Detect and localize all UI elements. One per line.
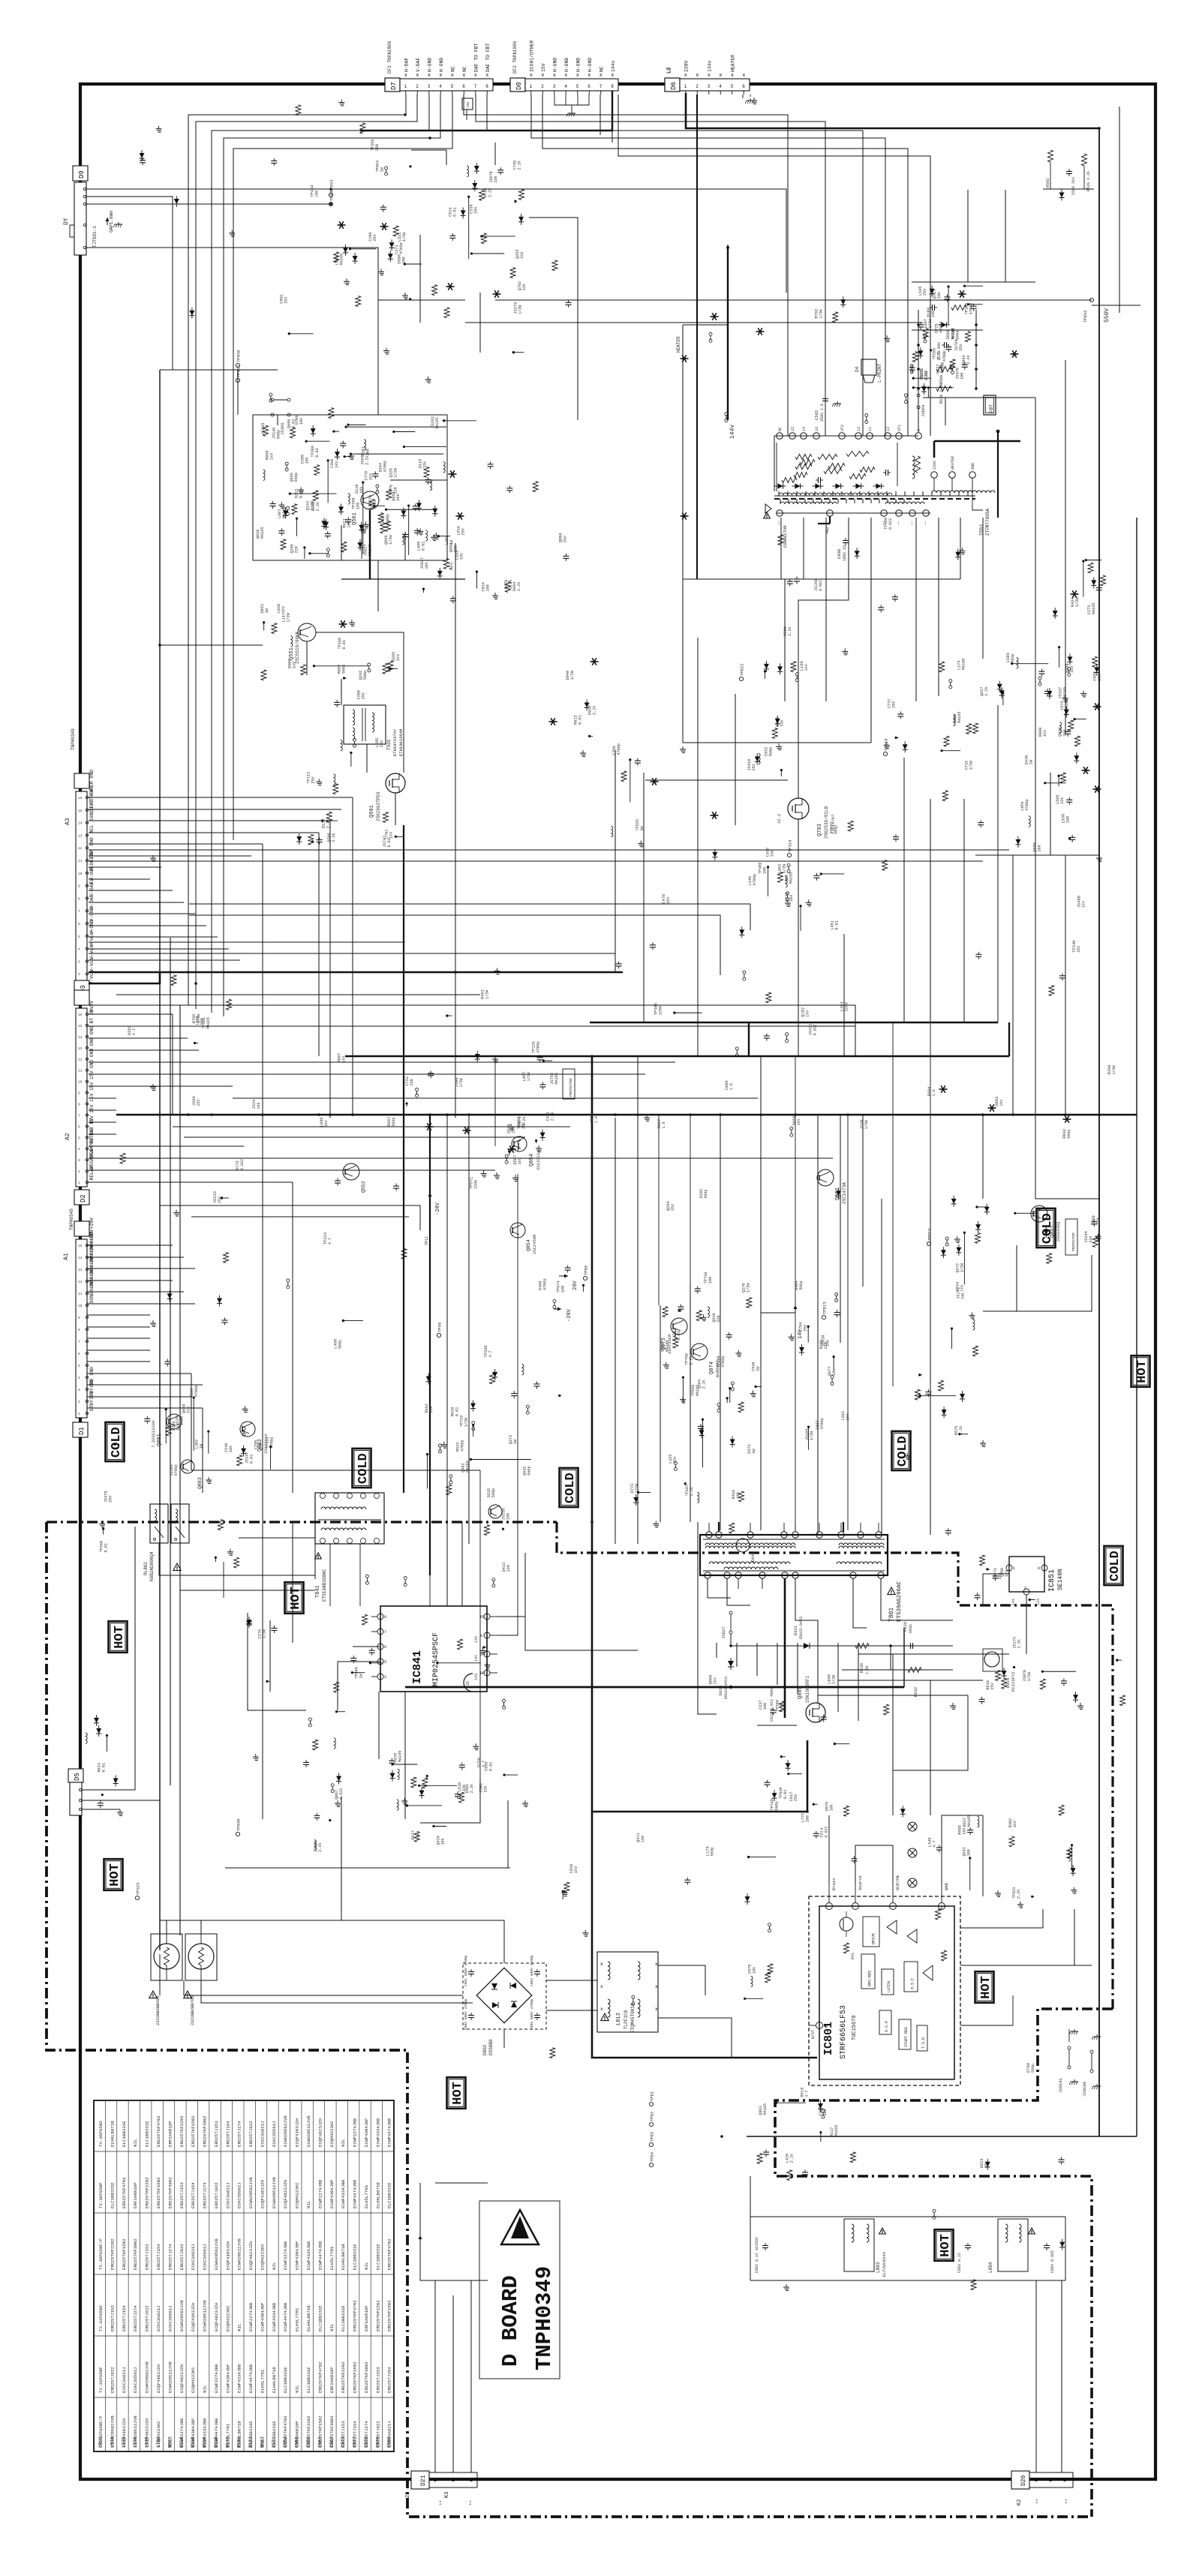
svg-text:x: x [428, 73, 431, 79]
svg-text:ERD25TKF4702: ERD25TKF4702 [317, 2361, 323, 2393]
svg-text:ECWF2274JBB: ECWF2274JBB [353, 2118, 358, 2147]
svg-text:2SC5510/06KK: 2SC5510/06KK [295, 631, 300, 664]
svg-text:DSS8B0: DSS8B0 [488, 2039, 494, 2055]
circuit cluster D849 R843 opto [484, 1488, 510, 1536]
circuit cluster D869 D866 parts [405, 1070, 434, 1106]
svg-text:ERD25TKF1502: ERD25TKF1502 [156, 2177, 161, 2208]
svg-text:ECWF2274JBB: ECWF2274JBB [179, 2418, 185, 2447]
svg-text:ELHKLB071B: ELHKLB071B [341, 2244, 346, 2270]
svg-text:D9: D9 [78, 170, 86, 179]
svg-text:L-PRINT: L-PRINT [877, 363, 882, 383]
svg-text:ECQF4103JZH: ECQF4103JZH [260, 2179, 265, 2208]
svg-text:25V: 25V [461, 527, 466, 535]
svg-text:HOT: HOT [979, 1976, 993, 1999]
svg-text:GND: GND [89, 1060, 95, 1069]
svg-text:1W: 1W [1029, 759, 1033, 764]
svg-text:HOT: HOT [113, 1626, 127, 1649]
svg-text:H-GND: H-GND [564, 58, 569, 72]
svg-text:ELC1BB331E: ELC1BB331E [387, 2182, 392, 2208]
svg-text:D20: D20 [1020, 2475, 1027, 2486]
transistor Q882 [240, 1422, 269, 1454]
transformer T841 ETS19AB1G8AC [315, 1493, 384, 1602]
svg-text:GND: GND [89, 837, 95, 846]
svg-text:TPD4: TPD4 [650, 2151, 655, 2162]
svg-text:D5: D5 [74, 1773, 81, 1781]
circuit cluster heater C710 C711 [764, 626, 798, 681]
svg-text:144v: 144v [611, 60, 616, 72]
svg-text:135: 135 [466, 1681, 470, 1688]
svg-text:10k: 10k [832, 1369, 837, 1376]
svg-text:123: 123 [1036, 1599, 1041, 1605]
svg-text:-20V: -20V [435, 1202, 441, 1215]
svg-text:ERF2AKR18P: ERF2AKR18P [133, 2182, 138, 2208]
svg-text:220V: 220V [933, 461, 937, 470]
svg-text:x: x [541, 73, 544, 79]
svg-text:ECWH20512JVB: ECWH20512JVB [203, 2300, 208, 2331]
svg-text:**: ** [469, 2500, 474, 2505]
svg-text:10: 10 [78, 872, 83, 876]
svg-text:250V 1.5: 250V 1.5 [820, 404, 825, 422]
svg-text:ERD25TJ274: ERD25TJ274 [167, 2244, 173, 2270]
wire D8 pin drops [531, 95, 612, 143]
svg-text:H-GND: H-GND [575, 58, 581, 72]
circuit cluster R867 R807 sense [532, 1041, 559, 1089]
svg-text:2SK2539/01LB: 2SK2539/01LB [824, 806, 829, 839]
D8 H-GND comb [554, 95, 589, 116]
wire right snubber feeds [945, 190, 1065, 1199]
svg-text:NIL: NIL [329, 2323, 335, 2331]
svg-text:MA165: MA165 [834, 2125, 839, 2137]
svg-text:10k: 10k [396, 494, 401, 501]
svg-text:ECWF2274JBB: ECWF2274JBB [317, 2179, 323, 2208]
svg-text:FBT: FBT [989, 404, 994, 413]
svg-text:ERD25TKF3902: ERD25TKF3902 [364, 2361, 369, 2393]
svg-text:25V: 25V [752, 763, 756, 770]
svg-text:13: 13 [78, 833, 83, 838]
svg-text:8: 8 [611, 84, 614, 89]
svg-text:DF2 TNPA1906: DF2 TNPA1906 [512, 41, 518, 74]
svg-text:1.0: 1.0 [729, 1083, 734, 1090]
svg-text:BP: BP [480, 1671, 485, 1676]
svg-text:ELC1BB331E: ELC1BB331E [306, 2367, 311, 2393]
circuit cluster D888 JSD40 R881 C883 C885 [425, 1404, 531, 1488]
label COLD [353, 1449, 371, 1488]
svg-text:12: 12 [78, 846, 83, 851]
wire left fan D2 [89, 1014, 855, 1493]
svg-text:100: 100 [1066, 816, 1071, 823]
svg-text:BT 30V: BT 30V [89, 1006, 95, 1023]
circuit cluster JSD20 L815 [801, 1802, 834, 1839]
svg-text:COLD: COLD [896, 1436, 910, 1467]
T801 secondary rectifier network [708, 1578, 953, 1718]
svg-text:100: 100 [966, 1849, 971, 1856]
svg-text:C804 500V 4700p: C804 500V 4700p [530, 1955, 534, 1986]
svg-text:HEATER: HEATER [730, 55, 735, 72]
svg-text:1: 1 [78, 1181, 80, 1185]
svg-text:ERD25TKF4702: ERD25TKF4702 [122, 2177, 127, 2208]
svg-text:2.2k: 2.2k [517, 582, 521, 591]
svg-text:1/2W: 1/2W [832, 1675, 837, 1684]
svg-text:ECWF4334JBB: ECWF4334JBB [237, 2364, 242, 2393]
optocoupler D848 [736, 1539, 756, 1562]
svg-text:1W: 1W [756, 1366, 761, 1371]
svg-text:TNPH0349: TNPH0349 [69, 1208, 74, 1230]
svg-text:4700p: 4700p [939, 321, 943, 333]
wire mesh FBT secondary [615, 579, 964, 1056]
wire mesh right column [975, 525, 1099, 1311]
svg-text:2: 2 [416, 84, 419, 89]
converter winding hatch [774, 436, 968, 503]
label COLD [892, 1431, 911, 1470]
svg-text:1/2W: 1/2W [389, 535, 393, 545]
svg-text:15: 15 [78, 1244, 83, 1248]
circuit cluster C847 C841 D843 [389, 1751, 518, 1811]
svg-text:7: 7 [78, 909, 80, 914]
svg-text:D8: D8 [515, 82, 523, 90]
svg-text:x: x [451, 73, 454, 79]
svg-text:K3: K3 [444, 2492, 450, 2498]
svg-text:1kV: 1kV [574, 1866, 578, 1873]
wire protect column [480, 1054, 542, 1778]
svg-text:220V: 220V [684, 60, 689, 72]
svg-text:MA165: MA165 [962, 658, 966, 670]
svg-text:ELC1BB331E: ELC1BB331E [375, 2244, 380, 2270]
svg-text:SE140N: SE140N [1057, 1569, 1064, 1590]
svg-text:15V: 15V [541, 63, 546, 72]
svg-text:ERD25TJ154: ERD25TJ154 [122, 2305, 127, 2331]
svg-text:HOT: HOT [939, 2234, 953, 2257]
svg-text:1kV: 1kV [347, 520, 352, 527]
svg-text:560p: 560p [392, 1117, 396, 1126]
svg-text:NIL: NIL [341, 2139, 346, 2147]
svg-text:ELC1BB331E: ELC1BB331E [110, 2182, 115, 2208]
label HOT [109, 1621, 128, 1653]
svg-text:4700p: 4700p [536, 1041, 541, 1053]
svg-text:4700p: 4700p [542, 1278, 547, 1290]
svg-text:L813: L813 [616, 2013, 622, 2025]
svg-text:100: 100 [561, 1286, 566, 1293]
svg-text:COLD: COLD [563, 1473, 578, 1503]
svg-text:MA165: MA165 [340, 254, 344, 266]
svg-text:4700p: 4700p [1025, 799, 1029, 811]
circuit cluster R504 D595 bias [566, 670, 597, 737]
svg-text:8: 8 [78, 1328, 80, 1332]
svg-text:1/2W: 1/2W [810, 1431, 814, 1440]
svg-text:9: 9 [78, 1316, 80, 1320]
svg-text:6: 6 [78, 1352, 80, 1356]
svg-text:4700p: 4700p [753, 874, 757, 886]
board name label D BOARD TNPH0349 [479, 2201, 560, 2379]
svg-text:ECKC3A821J: ECKC3A821J [387, 2421, 392, 2447]
svg-text:33k: 33k [1062, 730, 1067, 737]
svg-text:H-GND: H-GND [552, 58, 557, 72]
svg-text:12: 12 [857, 427, 861, 431]
circuit cluster R507 C50B parts [383, 812, 404, 848]
svg-text:ECQF4823JZH: ECQF4823JZH [248, 2241, 254, 2270]
svg-text:4: 4 [564, 84, 567, 89]
svg-text:EW-OUT: EW-OUT [89, 866, 95, 884]
svg-text:TP033: TP033 [329, 188, 335, 201]
svg-text:Drain: Drain [831, 1878, 837, 1890]
svg-text:DRIVE: DRIVE [871, 1933, 876, 1944]
svg-text:560p: 560p [338, 1340, 342, 1349]
svg-text:D802: D802 [482, 2044, 488, 2055]
svg-text:ELF2WV034A: ELF2WV034A [882, 2251, 887, 2277]
IC IC841 MIP0254SPSCF [371, 1606, 497, 1692]
svg-text:SGND -20V: SGND -20V [89, 1277, 95, 1304]
svg-text:ECQM4223KC: ECQM4223KC [260, 2244, 265, 2270]
svg-text:MA165: MA165 [789, 872, 794, 884]
svg-text:33k: 33k [520, 251, 524, 258]
transistor Q881 [151, 1414, 182, 1448]
svg-text:ERD25TJ822: ERD25TJ822 [179, 2244, 185, 2270]
svg-text:FB: FB [480, 1615, 485, 1620]
svg-text:ERD25TJ154: ERD25TJ154 [156, 2244, 161, 2270]
svg-text:ECWF4474JBB: ECWF4474JBB [353, 2179, 358, 2208]
svg-text:10BD1/OTHER: 10BD1/OTHER [89, 789, 95, 821]
svg-text:14V: 14V [798, 1329, 804, 1339]
wire bottom filter section [750, 2176, 1065, 2472]
svg-text:1kV: 1kV [713, 1677, 717, 1684]
svg-text:Source: Source [858, 1875, 863, 1890]
circuit cluster spark gaps C895 C897 [757, 2102, 808, 2181]
svg-text:100: 100 [506, 1513, 511, 1520]
svg-text:1: 1 [404, 84, 407, 89]
svg-text:10k: 10k [176, 1424, 181, 1431]
svg-text:TPD10: TPD10 [884, 738, 889, 751]
circuit cluster C573 R572 snubber NE [910, 285, 983, 398]
svg-text:220: 220 [824, 1342, 828, 1349]
svg-text:100: 100 [1098, 674, 1102, 680]
svg-text:ECQM4223KC: ECQM4223KC [295, 2182, 300, 2208]
FBT converter T551 ZTFM77005A [764, 305, 1020, 561]
svg-text:ERD25TJ274: ERD25TJ274 [203, 2182, 208, 2208]
svg-text:D21: D21 [420, 2475, 427, 2486]
svg-text:5: 5 [78, 935, 80, 939]
svg-text:3: 3 [78, 959, 80, 964]
svg-text:4700p: 4700p [174, 1464, 179, 1476]
svg-text:14: 14 [78, 1035, 83, 1040]
svg-text:10k: 10k [830, 1804, 834, 1811]
svg-text:MA165: MA165 [435, 417, 440, 428]
wire verticals into IC841 zone [187, 510, 1067, 1606]
svg-text:560p: 560p [769, 747, 774, 756]
transistor Q805 2SK1006 [770, 1676, 825, 1722]
svg-text:1/2W: 1/2W [518, 305, 522, 314]
svg-text:ERD25TJ154: ERD25TJ154 [225, 2121, 230, 2147]
transistor Q883 [181, 1460, 203, 1489]
circuit cluster R593 C591 aux left [86, 1715, 108, 1752]
svg-text:K6B2AD000Q4: K6B2AD000Q4 [149, 1551, 155, 1581]
svg-text:6: 6 [587, 84, 590, 89]
svg-text:1kV: 1kV [999, 1100, 1004, 1106]
svg-text:MA165: MA165 [260, 527, 265, 539]
svg-text:10k: 10k [257, 1103, 261, 1109]
svg-text:D560: D560 [946, 330, 951, 339]
wire thick D6 drop x941 [696, 95, 698, 579]
wire bus top-left nested corners [188, 95, 452, 1016]
svg-text:TPD32: TPD32 [1083, 310, 1088, 323]
svg-text:100: 100 [931, 311, 936, 317]
svg-text:4.7: 4.7 [328, 1238, 332, 1244]
svg-text:**: ** [778, 521, 783, 525]
svg-text:0.022: 0.022 [240, 1159, 245, 1170]
svg-text:4700p: 4700p [941, 362, 945, 374]
circuit cluster Q875 Q874 sound reg [661, 1272, 762, 1413]
svg-text:+B2: +B2 [825, 527, 830, 534]
svg-text:R520 2.2k: R520 2.2k [1086, 171, 1091, 191]
svg-text:H GND: H GND [439, 58, 444, 72]
svg-text:ERD25TKF3902: ERD25TKF3902 [167, 2177, 173, 2208]
svg-text:1/2W: 1/2W [402, 232, 407, 242]
svg-text:O.V.P: O.V.P [885, 2021, 889, 2032]
svg-text:NIL: NIL [237, 2323, 242, 2331]
svg-text:100: 100 [806, 1815, 810, 1822]
svg-text:x: x [708, 73, 711, 79]
svg-text:2.2k: 2.2k [550, 1112, 554, 1121]
svg-text:ECWF4304JBP: ECWF4304JBP [364, 2118, 369, 2147]
transformer T801 ETS39AG296AC [700, 1523, 903, 1622]
svg-text:x: x [600, 1984, 603, 1989]
svg-text:JS0101: JS0101 [1058, 2077, 1063, 2093]
svg-text:START REG: START REG [904, 2027, 909, 2047]
svg-text:10k: 10k [425, 562, 429, 569]
svg-text:x: x [742, 73, 745, 79]
svg-text:1W: 1W [449, 539, 454, 545]
wire relay to bulk [159, 1504, 315, 1598]
circuit cluster D654 C665 rect [888, 699, 908, 753]
svg-text:2.2k: 2.2k [470, 1784, 474, 1793]
wire left fan A3 [89, 797, 353, 1819]
wire D9 pin runs [86, 188, 786, 415]
svg-text:V-DAF: V-DAF [416, 58, 421, 72]
svg-text:1W: 1W [752, 1449, 756, 1454]
svg-text:R570 2.2k: R570 2.2k [939, 383, 944, 404]
svg-text:4700p: 4700p [460, 1440, 464, 1452]
svg-text:HOT: HOT [108, 1863, 122, 1887]
svg-text:14: 14 [802, 427, 807, 431]
svg-text:1: 1 [1013, 1566, 1015, 1571]
svg-text:1kV: 1kV [1013, 1820, 1017, 1827]
svg-text:Q501: Q501 [369, 805, 375, 818]
svg-text:ETS19AB1G8AC: ETS19AB1G8AC [322, 1569, 327, 1602]
svg-text:220: 220 [294, 546, 299, 553]
wire D21 drops [419, 2235, 488, 2472]
wire long EHT/ACL lines across middle [89, 797, 1009, 1022]
svg-text:L3: L3 [666, 68, 672, 74]
svg-text:1W: 1W [380, 167, 385, 172]
arrow 20V labels [554, 1274, 578, 1323]
svg-text:ECKC3A821J: ECKC3A821J [260, 2121, 265, 2147]
svg-text:2SA733CR: 2SA733CR [667, 1334, 672, 1354]
svg-text:1/2W: 1/2W [960, 1262, 964, 1272]
svg-text:ECKC3D561J: ECKC3D561J [272, 2121, 277, 2147]
svg-text:R41: R41 [851, 1953, 855, 1959]
svg-text:12: 12 [78, 1280, 83, 1284]
test points TP030 TP031 [236, 350, 241, 382]
svg-text:R636: R636 [859, 1663, 864, 1673]
svg-text:x: x [439, 73, 442, 79]
svg-text:23Z2BB2BB7O6: 23Z2BB2BB7O6 [190, 1995, 195, 2025]
svg-text:1kV: 1kV [269, 452, 274, 460]
cluster R592 2kV snubber top right [1043, 150, 1094, 201]
svg-text:ELC1BB331E: ELC1BB331E [272, 2421, 277, 2447]
svg-text:ERD25TKF3902: ERD25TKF3902 [203, 2115, 208, 2147]
svg-text:ECQM4223KC: ECQM4223KC [225, 2305, 230, 2331]
svg-text:4700p: 4700p [820, 1418, 825, 1430]
svg-text:ELH5L7701: ELH5L7701 [225, 2423, 230, 2447]
svg-text:0.022: 0.022 [813, 1024, 817, 1035]
svg-text:0.01: 0.01 [455, 1407, 459, 1416]
svg-text:x: x [600, 1962, 603, 1967]
svg-text:13: 13 [886, 427, 891, 431]
svg-text:ERD25TJ274: ERD25TJ274 [364, 2421, 369, 2447]
svg-text:RELAY: RELAY [89, 1166, 95, 1180]
svg-text:15V: 15V [89, 1070, 95, 1079]
svg-text:C893 0.22: C893 0.22 [957, 2253, 962, 2273]
svg-text:25V: 25V [959, 344, 963, 351]
svg-text:1/2W: 1/2W [746, 1283, 750, 1293]
svg-text:TP030: TP030 [236, 1818, 242, 1831]
circuit cluster Q551 horizontal drive [260, 604, 401, 680]
svg-text:ECKC3A821J: ECKC3A821J [122, 2367, 127, 2393]
svg-text:TPD1: TPD1 [650, 2091, 655, 2101]
svg-text:ECWF4334JBB: ECWF4334JBB [375, 2118, 380, 2147]
svg-text:4700p: 4700p [399, 242, 404, 254]
transistor Q954 beam limiter [518, 1140, 521, 1151]
wire sound section links [659, 1115, 825, 1395]
svg-text:PC123FY2: PC123FY2 [1011, 1672, 1016, 1692]
circuit cluster D844 D845 C842 snubs [389, 1743, 488, 1799]
svg-text:NC: NC [450, 66, 455, 72]
svg-text:ECQF4103JZH: ECQF4103JZH [122, 2418, 127, 2447]
svg-text:ECWH20562JVB: ECWH20562JVB [110, 2415, 115, 2447]
svg-text:0.01: 0.01 [578, 715, 582, 724]
connector D20 (K2) [1011, 2471, 1073, 2505]
svg-text:14: 14 [78, 1256, 83, 1260]
svg-text:MA165: MA165 [957, 711, 962, 723]
circuit cluster T84P EXCF label [314, 1813, 332, 1852]
svg-text:**: ** [1035, 2499, 1041, 2504]
wire thick 144V from D6 [686, 93, 1099, 128]
svg-text:0.01: 0.01 [342, 640, 347, 649]
svg-text:TX-32PG50F/P: TX-32PG50F/P [98, 2415, 104, 2447]
svg-text:A3: A3 [65, 818, 71, 825]
svg-text:25V: 25V [804, 1324, 808, 1332]
svg-text:1kV: 1kV [1081, 901, 1086, 908]
svg-text:D6: D6 [670, 82, 678, 90]
svg-text:DY: DY [63, 218, 70, 225]
svg-text:TP030: TP030 [236, 350, 242, 362]
svg-text:1: 1 [530, 84, 533, 89]
svg-text:25V: 25V [794, 1794, 798, 1801]
svg-text:25V: 25V [990, 1682, 995, 1689]
svg-text:20V: 20V [572, 1280, 578, 1290]
svg-text:ECKC3D561J: ECKC3D561J [237, 2182, 242, 2208]
svg-text:11: 11 [78, 1292, 83, 1296]
svg-text:x: x [600, 2007, 603, 2012]
svg-text:560p: 560p [1031, 2064, 1035, 2073]
svg-text:16: 16 [823, 2024, 828, 2028]
svg-text:142: 142 [474, 1636, 479, 1643]
svg-text:ERD25TJ274: ERD25TJ274 [133, 2305, 138, 2331]
svg-text:x: x [611, 73, 614, 79]
svg-text:ELHKLB071B: ELHKLB071B [110, 2121, 115, 2147]
svg-text:HOT: HOT [1135, 1360, 1149, 1383]
svg-text:NIL: NIL [260, 2439, 265, 2447]
svg-text:25V: 25V [284, 297, 288, 304]
labels along 15V bus [192, 1071, 1071, 1138]
